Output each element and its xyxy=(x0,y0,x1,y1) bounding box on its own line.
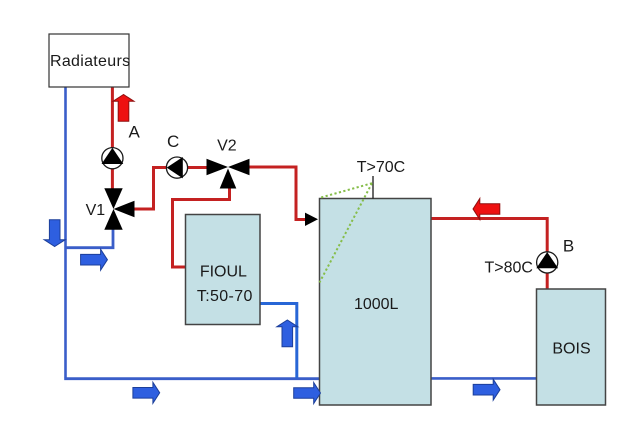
wire: red V2 bottom branch to FIOUL xyxy=(173,187,230,267)
arrowhead: tank inlet xyxy=(305,213,318,226)
svg-text:A: A xyxy=(129,123,141,142)
flow arrow blue right (below V1 leg) xyxy=(81,249,108,270)
wire: red tank to pump B xyxy=(431,219,547,254)
flow arrow blue up (FIOUL outlet) xyxy=(277,320,298,347)
wire: blue V1 bottom leg xyxy=(65,228,113,248)
valve V1 xyxy=(104,188,134,230)
wire: red pump B to BOIS xyxy=(546,272,549,290)
svg-text:V1: V1 xyxy=(86,202,106,219)
svg-text:V2: V2 xyxy=(217,137,237,154)
sensor zone dotted line lower xyxy=(320,183,373,282)
flow arrow blue right (tank to BOIS) xyxy=(473,379,500,400)
svg-text:T>70C: T>70C xyxy=(357,159,405,176)
wire: red V2 to tank inlet xyxy=(248,167,307,220)
pump C xyxy=(166,157,187,178)
wire: red pump C to valve V2 xyxy=(186,166,208,169)
wire: red pump A to valve V1 xyxy=(111,167,114,190)
wire: blue return left vertical xyxy=(64,87,67,378)
wire: red V1 right branch to pump C xyxy=(133,168,168,210)
svg-text:FIOUL: FIOUL xyxy=(200,264,247,281)
flow arrow blue down (left return) xyxy=(44,220,65,247)
FIOUL box xyxy=(186,215,261,325)
wire: red supply Radiateurs to pump A xyxy=(111,87,114,149)
svg-text:T:50-70: T:50-70 xyxy=(197,288,253,305)
svg-text:T>80C: T>80C xyxy=(484,260,532,277)
pump A xyxy=(102,148,124,169)
sensor zone dotted line upper xyxy=(321,183,372,197)
pump B xyxy=(536,252,558,273)
wire: blue bottom horizontal xyxy=(64,377,320,380)
flow arrow red up (near A) xyxy=(113,95,134,122)
valve V2 xyxy=(207,159,250,189)
pointer line T>70C to tank xyxy=(372,176,374,199)
svg-text:1000L: 1000L xyxy=(354,296,399,313)
flow arrow blue right (bottom line at tank) xyxy=(294,383,321,404)
flow arrow red left (above tank-BOIS pipe) xyxy=(473,199,500,220)
tank 1000L xyxy=(320,199,432,406)
svg-text:Radiateurs: Radiateurs xyxy=(50,53,130,70)
wire: blue tank to BOIS xyxy=(431,377,537,380)
BOIS box xyxy=(537,289,606,405)
svg-text:B: B xyxy=(563,237,574,256)
svg-text:C: C xyxy=(167,132,179,151)
wire: blue FIOUL outlet xyxy=(260,304,297,379)
Radiateurs box xyxy=(49,34,129,87)
flow arrow blue right (bottom line left) xyxy=(133,382,160,403)
svg-text:BOIS: BOIS xyxy=(552,341,590,358)
